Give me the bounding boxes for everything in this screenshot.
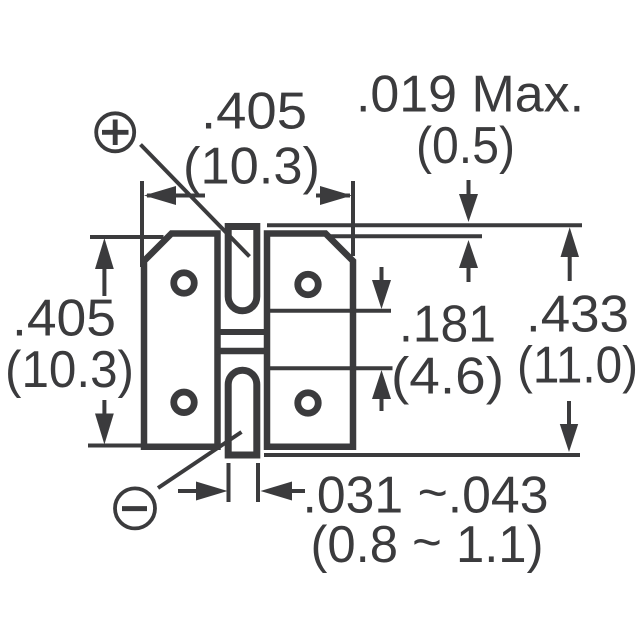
plus polarity symbol bbox=[96, 113, 134, 151]
body right half outline bbox=[267, 234, 353, 447]
hole bottom-right bbox=[298, 393, 319, 414]
bottom dim left arrow bbox=[178, 482, 228, 501]
minus polarity symbol bbox=[115, 488, 155, 528]
top dim right extension line bbox=[351, 181, 355, 256]
top dim left extension line bbox=[140, 181, 144, 267]
svg-text:(10.3): (10.3) bbox=[5, 341, 134, 399]
hole top-left bbox=[174, 273, 195, 294]
019 dim up arrow bbox=[459, 240, 478, 282]
seating plane line (terminal top level) bbox=[267, 223, 582, 227]
svg-text:.433: .433 bbox=[526, 285, 629, 343]
left dim bottom arrow bbox=[95, 400, 114, 445]
minus leader line bbox=[158, 432, 242, 488]
hole top-right bbox=[298, 274, 319, 295]
433 dim top arrow bbox=[561, 227, 580, 281]
left dim top extension line bbox=[90, 235, 164, 239]
019 dim down arrow bbox=[459, 180, 478, 222]
body left half outline bbox=[144, 234, 218, 447]
body top extension line right bbox=[328, 234, 482, 238]
plus leader line bbox=[141, 145, 250, 257]
svg-text:(10.3): (10.3) bbox=[183, 138, 320, 196]
hole bottom-left bbox=[174, 392, 195, 413]
top dim left arrow bbox=[144, 186, 205, 205]
svg-text:(0.8 ~ 1.1): (0.8 ~ 1.1) bbox=[311, 514, 544, 575]
181 dim top line bbox=[270, 309, 391, 313]
left dim top arrow bbox=[95, 238, 114, 296]
svg-text:(4.6): (4.6) bbox=[391, 348, 504, 406]
negative terminal (bottom) bbox=[228, 370, 257, 455]
bottom dim right arrow bbox=[261, 482, 306, 501]
433 dim bottom extension line bbox=[264, 453, 580, 457]
positive terminal (top) bbox=[228, 227, 257, 311]
433 dim bottom arrow bbox=[560, 401, 578, 452]
left dim bottom extension line bbox=[88, 444, 145, 448]
svg-text:(11.0): (11.0) bbox=[517, 337, 638, 395]
181 dim up arrow bbox=[372, 370, 391, 411]
center band line lower bbox=[216, 348, 269, 354]
top dim right arrow bbox=[316, 186, 352, 205]
svg-text:.405: .405 bbox=[12, 290, 116, 348]
181 dim down arrow bbox=[372, 267, 391, 309]
svg-text:.181: .181 bbox=[399, 296, 496, 354]
svg-text:.405: .405 bbox=[201, 83, 307, 141]
181 dim bottom line bbox=[270, 366, 393, 370]
svg-text:.019 Max.: .019 Max. bbox=[356, 66, 584, 124]
center band line upper bbox=[216, 329, 269, 335]
bottom dim left extension line bbox=[227, 463, 231, 502]
svg-text:(0.5): (0.5) bbox=[416, 117, 515, 175]
bottom dim right extension line bbox=[256, 463, 260, 502]
